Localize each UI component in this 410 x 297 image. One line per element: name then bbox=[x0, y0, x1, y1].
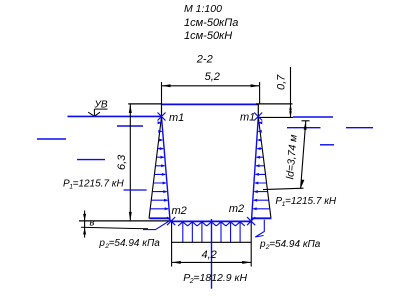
dimension 5,2 extension line left bbox=[161, 82, 163, 104]
svg-text:1см-50кН: 1см-50кН bbox=[184, 30, 232, 42]
svg-text:m2: m2 bbox=[229, 203, 244, 215]
dimension 4,2 extension line left bbox=[171, 222, 173, 267]
svg-text:=1215.7 кН: =1215.7 кН bbox=[73, 179, 125, 190]
svg-text:5,2: 5,2 bbox=[205, 71, 220, 83]
left wall below water (blue, tapered) bbox=[162, 117, 171, 220]
water level mark arrow bbox=[88, 109, 100, 116]
top deck edge between walls (blue) bbox=[162, 103, 259, 105]
water line right long bbox=[293, 116, 333, 118]
floor uplift hatch lines bbox=[183, 221, 240, 242]
water line right short 4 bbox=[320, 144, 334, 146]
wall hatch lines with pressure arrows, left wall bbox=[150, 123, 168, 209]
water line left long bbox=[68, 115, 162, 117]
right wall above water bbox=[257, 104, 259, 118]
water line left short 3 bbox=[37, 138, 66, 140]
svg-text:0,7: 0,7 bbox=[276, 74, 288, 90]
right pressure envelope (black) bbox=[258, 117, 271, 219]
dimension ld=3,74 top extension tick bbox=[302, 120, 310, 122]
dimension 0,7 line with arrows bbox=[290, 67, 292, 117]
svg-text:6,3: 6,3 bbox=[116, 154, 128, 170]
floor pressure rectangle bottom edge bbox=[172, 241, 251, 243]
water line right short 2 bbox=[287, 127, 321, 129]
right wall below water (blue, tapered) bbox=[252, 117, 259, 220]
centerline (blue axis) bbox=[211, 219, 213, 289]
dimension ld=3,74 line with arrows bbox=[301, 121, 306, 189]
water line right short 3 bbox=[346, 127, 373, 129]
node m2 left cross marker bbox=[167, 217, 175, 225]
floor uplift arrowheads bbox=[178, 222, 245, 226]
force P1 left line (blue) bbox=[124, 189, 147, 191]
pressure p2 left leader (blue) bbox=[143, 221, 170, 230]
svg-text:=1812.9 кН: =1812.9 кН bbox=[193, 272, 247, 284]
dimension 5,2 extension line right bbox=[259, 82, 261, 104]
dimension в small vertical line with arrows bbox=[84, 211, 86, 238]
svg-text:в: в bbox=[90, 218, 95, 229]
svg-text:2-2: 2-2 bbox=[196, 53, 213, 65]
node m1 right cross marker bbox=[254, 113, 262, 121]
left wall above water bbox=[161, 104, 163, 118]
svg-text:=54.94 кПа: =54.94 кПа bbox=[269, 239, 321, 250]
node m1 left cross marker bbox=[158, 113, 166, 121]
svg-text:М 1:100: М 1:100 bbox=[184, 3, 222, 15]
svg-text:1см-50кПа: 1см-50кПа bbox=[184, 17, 238, 29]
svg-text:m1: m1 bbox=[169, 112, 184, 124]
dimension в lower extension line bbox=[81, 227, 148, 229]
dimension 5,2 line with arrows bbox=[162, 85, 260, 87]
svg-text:=1215.7 кН: =1215.7 кН bbox=[285, 196, 337, 207]
node m2 right cross marker bbox=[247, 217, 255, 225]
floor top edge (blue) bbox=[172, 220, 252, 222]
ground line bbox=[79, 220, 172, 222]
svg-text:m1: m1 bbox=[240, 112, 255, 124]
svg-text:4,2: 4,2 bbox=[202, 249, 217, 261]
water line left short 4 bbox=[77, 159, 105, 161]
wall hatch lines with pressure arrows, right wall bbox=[253, 123, 269, 209]
dimension 4,2 extension line right bbox=[250, 222, 252, 267]
svg-text:=54.94 кПа: =54.94 кПа bbox=[109, 238, 161, 249]
dimension ld=3,74 bottom extension bbox=[263, 188, 304, 189]
svg-text:m2: m2 bbox=[172, 205, 187, 217]
top deck edge left overhang bbox=[128, 103, 162, 105]
water line left short 2 bbox=[117, 125, 143, 127]
dimension 0,7 extension at water level right bbox=[259, 116, 293, 118]
left pressure envelope (black) bbox=[149, 117, 162, 219]
right pressure diagram bottom edge bbox=[251, 217, 271, 219]
left pressure diagram bottom edge bbox=[149, 217, 170, 219]
pressure p2 right leader (blue) bbox=[255, 220, 264, 237]
svg-text:УВ: УВ bbox=[94, 100, 108, 111]
top deck edge right overhang bbox=[256, 103, 292, 105]
dimension 6,3 line with arrows bbox=[129, 104, 131, 221]
dimension 4,2 line with arrows bbox=[172, 261, 251, 263]
